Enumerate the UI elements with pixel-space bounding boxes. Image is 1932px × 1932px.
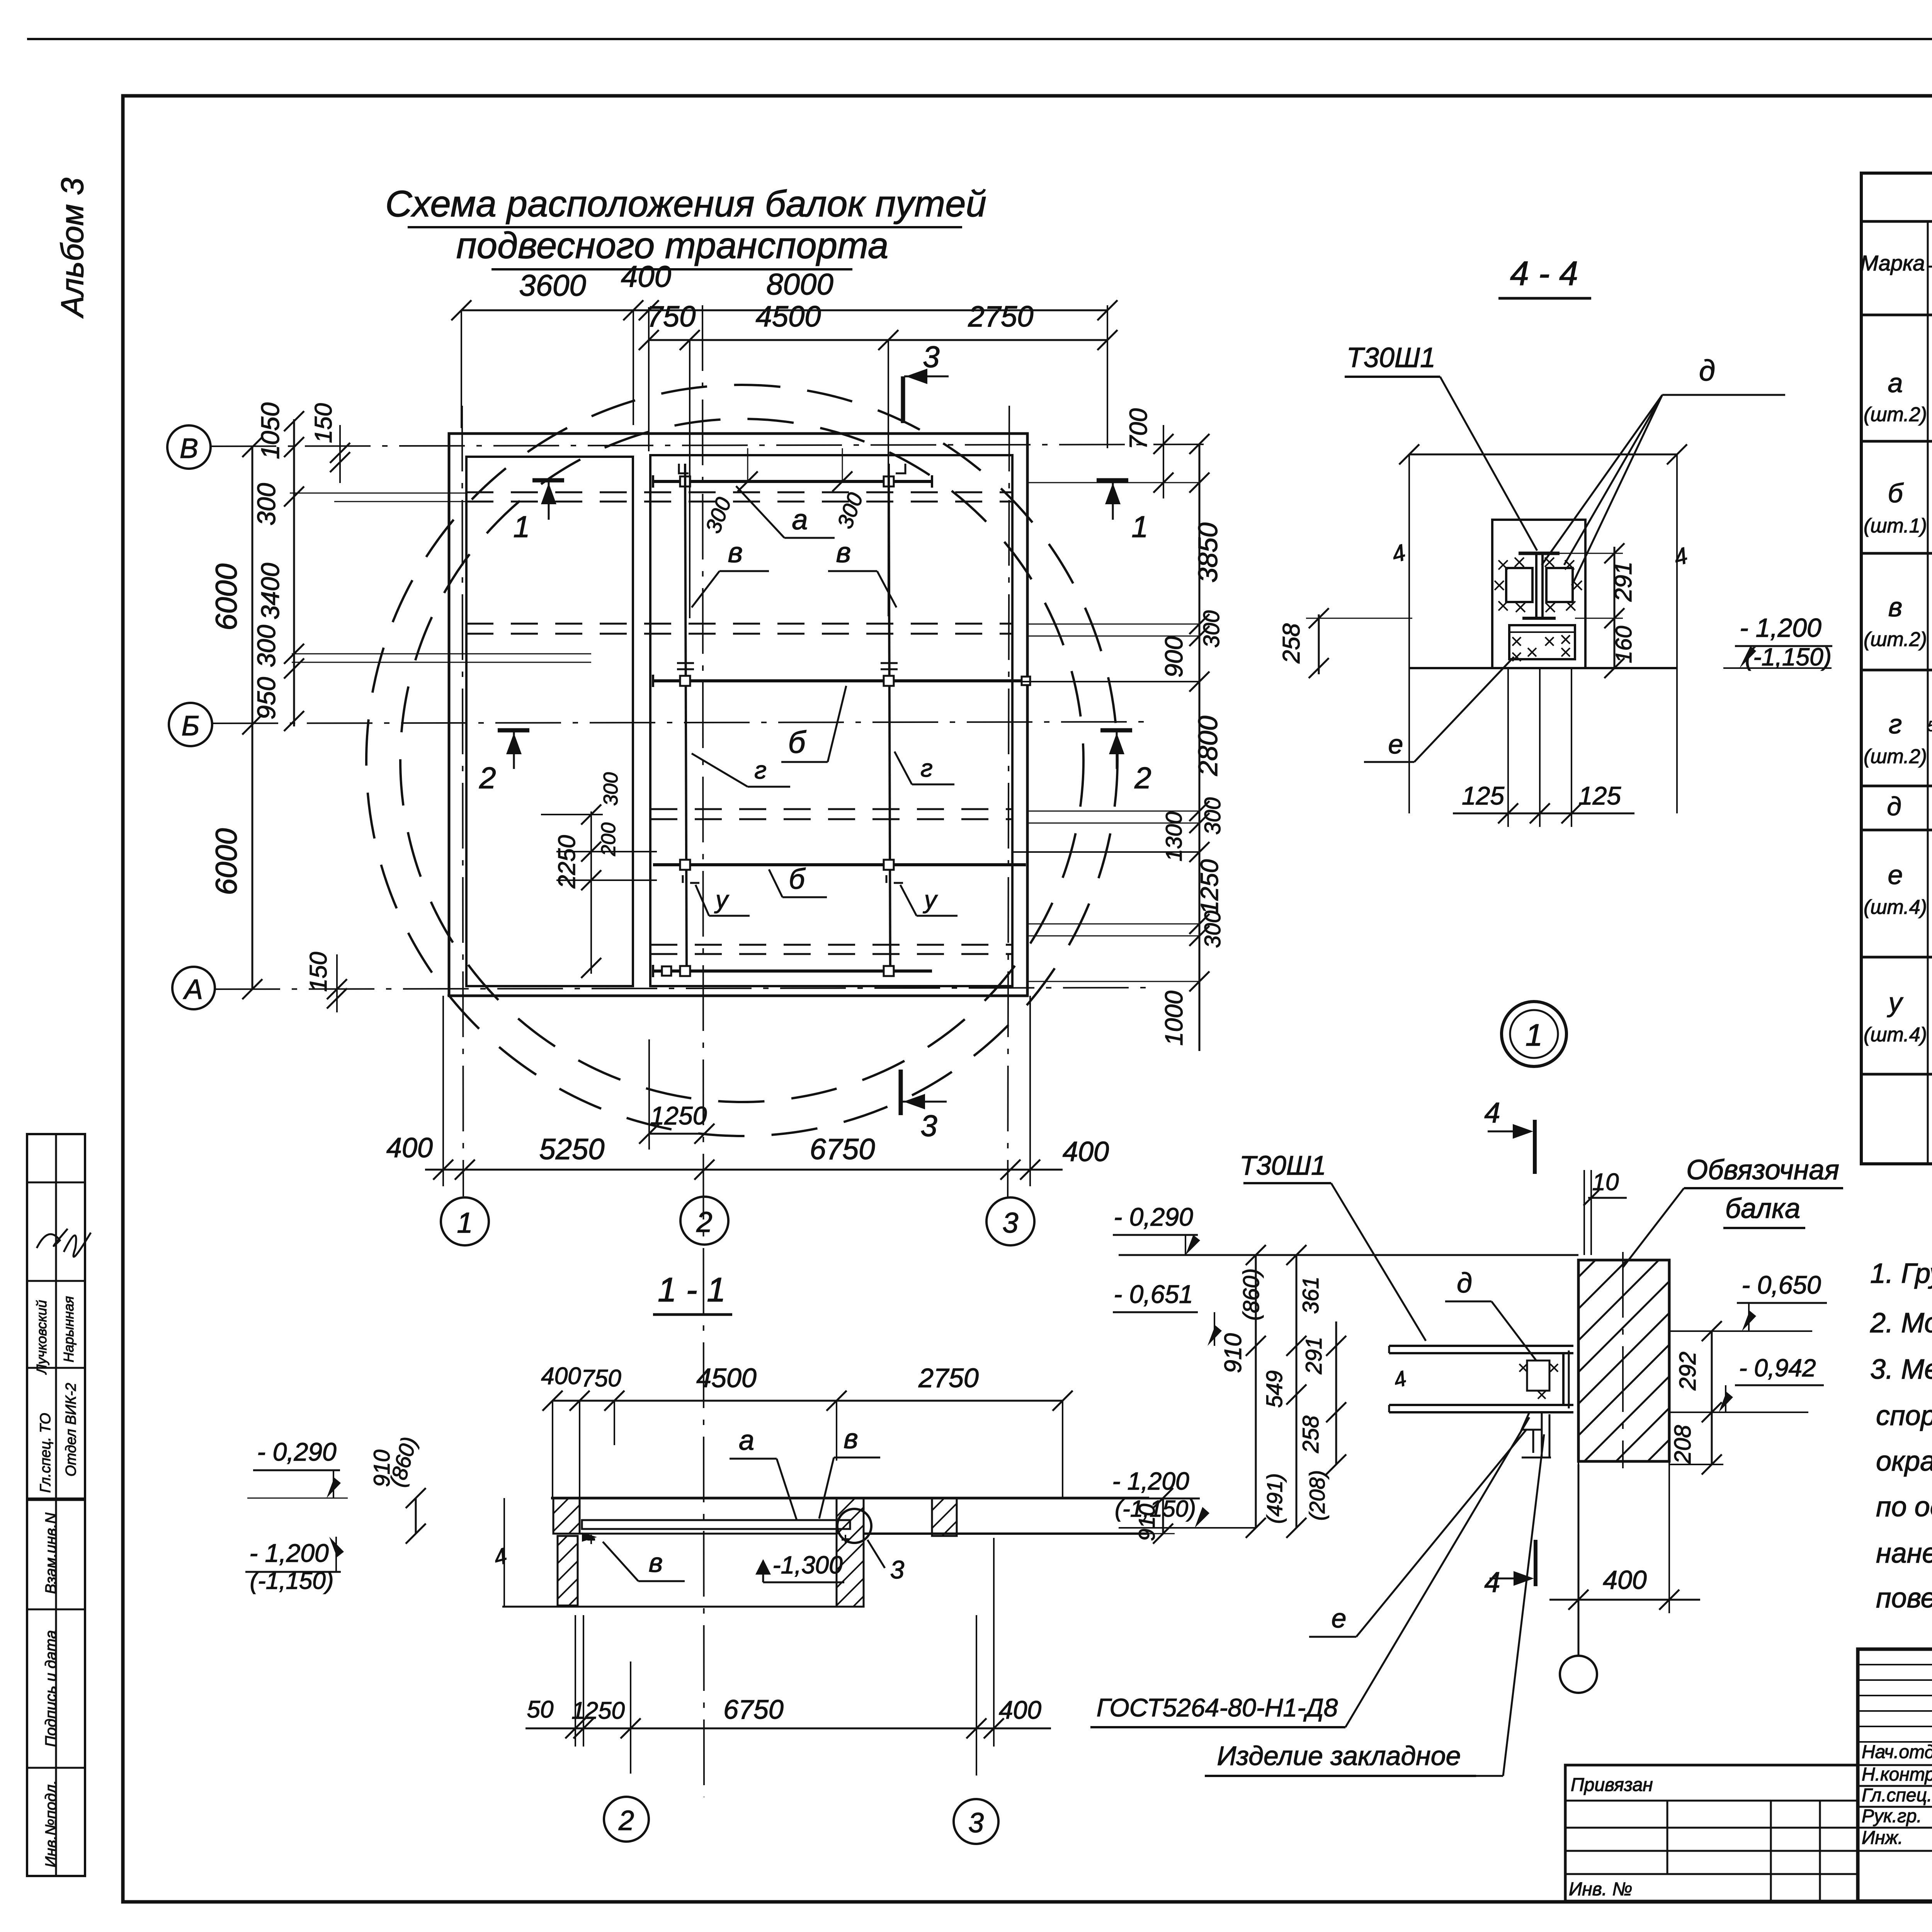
svg-text:- 1,200: - 1,200 <box>1740 613 1821 643</box>
label г right with leader <box>895 752 954 784</box>
axis line Б <box>213 722 1148 723</box>
table rows group б <box>1864 444 1932 549</box>
svg-text:Отдел ВИК-2: Отдел ВИК-2 <box>63 1383 79 1476</box>
table rows group г <box>1864 666 1932 768</box>
axis circle В <box>167 425 211 469</box>
section 1-1 axis circle 3 <box>954 1799 998 1844</box>
section 1-1 title <box>653 1270 732 1315</box>
section 1-1 label 3 with leader <box>867 1540 905 1584</box>
title block names <box>1862 1710 1932 1848</box>
svg-text:6000: 6000 <box>209 563 243 631</box>
section 4-4 label д with leaders <box>1542 354 1785 585</box>
element list table: data area column lines <box>1928 315 1932 1164</box>
svg-text:- 0,650: - 0,650 <box>1742 1270 1821 1299</box>
svg-text:2800: 2800 <box>1193 716 1223 776</box>
section 1-1 left pier hatched <box>480 1498 709 1605</box>
detail: level -0.650 right <box>1669 1270 1827 1331</box>
beam b lower (runway beam row 3) <box>653 860 1026 883</box>
svg-text:549: 549 <box>1262 1371 1287 1408</box>
crane rail dashed band 2 <box>466 624 1012 634</box>
svg-text:(шт.2): (шт.2) <box>1864 628 1927 651</box>
svg-text:Лучковский: Лучковский <box>34 1300 49 1374</box>
beam g left (vertical) <box>685 464 687 975</box>
beam g right (vertical) <box>889 464 890 975</box>
detail: small circle bottom <box>1560 1464 1597 1693</box>
svg-text:е: е <box>1888 860 1903 890</box>
svg-text:Подпись и дата: Подпись и дата <box>43 1630 60 1747</box>
svg-text:125: 125 <box>1462 781 1504 810</box>
detail: left dims (860) 361 910 549 291 258 (491) (208) <box>1220 1245 1346 1538</box>
section 1-1 axis circle 2 <box>604 1797 649 1842</box>
section 1-1 label а with leader <box>730 1425 797 1520</box>
svg-text:Инж.: Инж. <box>1862 1828 1903 1848</box>
svg-text:нанесенному на очищенную от: нанесенному на очищенную от ржавчины <box>1876 1538 1932 1569</box>
node mark circle 1 <box>1502 1002 1566 1066</box>
drawing title line 2 <box>456 225 889 269</box>
svg-text:(шт.4): (шт.4) <box>1864 896 1927 918</box>
detail: level -0.651 <box>1113 1280 1222 1346</box>
svg-text:г: г <box>1889 709 1902 739</box>
svg-text:1: 1 <box>457 1207 473 1239</box>
section 1-1 runway beam (longitudinal) <box>582 1520 850 1544</box>
detail: level -0.290 <box>1113 1202 1200 1255</box>
section 4-4 dim 291 160 <box>1560 543 1637 678</box>
svg-text:4: 4 <box>1484 1097 1500 1129</box>
section 4-4 label Т30Ш1 <box>1345 342 1537 551</box>
svg-text:2750: 2750 <box>918 1363 979 1393</box>
section 4-4 I-beam <box>1519 553 1560 618</box>
section 4-4 label е with leader <box>1364 657 1514 762</box>
svg-text:400: 400 <box>386 1133 433 1163</box>
label ГОСТ5264-80-Н1-Д8 with leader <box>1090 1417 1529 1727</box>
svg-text:у: у <box>714 886 730 913</box>
beam a (top runway beam) <box>653 448 932 536</box>
section 4-4 side plates with weld marks <box>1495 558 1582 612</box>
section 1-1 right outer pier <box>889 1498 1015 1536</box>
table row group д <box>1887 792 1932 823</box>
svg-text:-1,300: -1,300 <box>772 1551 843 1579</box>
svg-text:910: 910 <box>1220 1333 1247 1373</box>
svg-text:300: 300 <box>832 490 867 532</box>
svg-text:в: в <box>836 536 851 568</box>
detail: label Т30Ш1 <box>1240 1150 1426 1341</box>
svg-text:500: 500 <box>1927 718 1932 735</box>
detail: section mark 4 upper <box>1484 1097 1535 1174</box>
svg-text:(208): (208) <box>1305 1470 1329 1521</box>
section 1-1 level -1.200 (-1.150) left <box>245 1537 344 1594</box>
detail: section mark 4 lower <box>1484 1540 1536 1598</box>
label б middle with leader <box>781 686 846 762</box>
svg-text:1: 1 <box>513 510 530 544</box>
section 4-4 column outline <box>1409 520 1677 668</box>
svg-text:4: 4 <box>1484 1566 1500 1598</box>
plan bottom dimension: 400 5250 1250 6750 400 <box>386 996 1109 1186</box>
detail: label Обвязочная балка <box>1623 1155 1843 1267</box>
svg-text:750: 750 <box>647 300 696 333</box>
svg-text:258: 258 <box>1278 623 1305 664</box>
detail: bottom dim 400 <box>1549 1461 1700 1613</box>
svg-text:6750: 6750 <box>810 1133 875 1166</box>
svg-text:Нарынная: Нарынная <box>61 1296 77 1362</box>
svg-text:а: а <box>1888 368 1903 398</box>
svg-text:В: В <box>180 433 198 464</box>
svg-text:1: 1 <box>1131 510 1148 544</box>
section 1-1 tick 4 <box>491 1498 510 1607</box>
svg-text:балка: балка <box>1725 1193 1800 1224</box>
svg-text:3. Металлоконструкции путей: 3. Металлоконструкции путей подвесного т… <box>1870 1354 1932 1385</box>
svg-text:5250: 5250 <box>539 1133 604 1166</box>
svg-text:окрасить эмалью ПФ-115 ГОСТ64: окрасить эмалью ПФ-115 ГОСТ6465-76 за тр… <box>1876 1446 1932 1477</box>
svg-text:3: 3 <box>1002 1207 1018 1239</box>
svg-text:400: 400 <box>621 259 671 293</box>
svg-text:300: 300 <box>600 772 622 806</box>
plan dim cluster 2250 200 300 <box>541 772 657 978</box>
plan: right room inner walls <box>650 455 1012 986</box>
svg-text:(шт.1): (шт.1) <box>1864 515 1927 537</box>
album label: Альбом 3 <box>55 178 90 319</box>
svg-text:(860): (860) <box>1239 1268 1264 1320</box>
svg-text:361: 361 <box>1298 1277 1323 1314</box>
svg-text:Т30Ш1: Т30Ш1 <box>1240 1150 1326 1180</box>
svg-text:б: б <box>1888 478 1904 508</box>
svg-text:4: 4 <box>1391 1366 1409 1393</box>
svg-text:в: в <box>728 536 743 568</box>
svg-text:2: 2 <box>1134 761 1151 795</box>
svg-text:Изделие закладное: Изделие закладное <box>1217 1741 1461 1771</box>
label в right with leader <box>828 536 896 607</box>
svg-text:А: А <box>183 974 203 1005</box>
svg-text:- 1,200: - 1,200 <box>1112 1467 1189 1495</box>
section 4-4 embedded plate <box>1509 625 1575 661</box>
svg-text:(-1,150): (-1,150) <box>1745 643 1832 671</box>
svg-text:700: 700 <box>1124 408 1152 449</box>
svg-text:4 - 4: 4 - 4 <box>1510 254 1578 293</box>
svg-text:Гл.спец.: Гл.спец. <box>1862 1785 1932 1806</box>
svg-text:400: 400 <box>541 1363 581 1389</box>
svg-text:1: 1 <box>1526 1018 1543 1052</box>
section 1-1 level -0.290 left <box>247 1437 348 1498</box>
table rows group у <box>1864 959 1932 1055</box>
svg-text:(-1,150): (-1,150) <box>250 1568 333 1594</box>
svg-text:400: 400 <box>999 1696 1041 1724</box>
svg-text:а: а <box>792 503 808 536</box>
element list table: outer frame and title <box>1861 173 1932 1164</box>
svg-text:- 1,200: - 1,200 <box>249 1539 329 1567</box>
svg-text:Взам.инв.N: Взам.инв.N <box>43 1513 60 1594</box>
svg-text:200: 200 <box>597 823 620 857</box>
svg-text:д: д <box>1699 354 1715 387</box>
section mark 1 right <box>1097 480 1148 544</box>
svg-text:д: д <box>1887 792 1901 821</box>
svg-text:3: 3 <box>920 1109 937 1143</box>
axis line А <box>214 988 1148 989</box>
section 1-1 slab/beam bottom <box>580 1533 1149 1535</box>
svg-text:2: 2 <box>479 761 496 795</box>
plan: tank dashed circles <box>366 385 1117 1136</box>
section 4-4 level mark -1.200 (-1.150) <box>1723 613 1832 671</box>
svg-text:1300: 1300 <box>1162 811 1187 861</box>
svg-text:291: 291 <box>1301 1337 1327 1375</box>
svg-text:50: 50 <box>527 1696 554 1723</box>
svg-text:Схема расположения балок пу: Схема расположения балок путей <box>385 183 986 224</box>
axis circle 1 <box>441 1197 489 1245</box>
svg-text:ГОСТ5264-80-Н1-Д8: ГОСТ5264-80-Н1-Д8 <box>1097 1693 1338 1722</box>
plan: building outer walls <box>449 434 1027 996</box>
svg-text:1250: 1250 <box>650 1101 707 1130</box>
svg-text:208: 208 <box>1670 1425 1696 1464</box>
svg-text:у: у <box>1887 987 1904 1017</box>
svg-text:д: д <box>1457 1268 1472 1299</box>
section 4-4 dim 258 <box>1278 608 1412 678</box>
svg-text:2750: 2750 <box>968 300 1033 333</box>
svg-text:4: 4 <box>1389 539 1408 568</box>
svg-text:4: 4 <box>1671 543 1690 571</box>
svg-text:6750: 6750 <box>723 1694 784 1725</box>
svg-text:400: 400 <box>1603 1565 1647 1595</box>
svg-text:Т30Ш1: Т30Ш1 <box>1347 342 1435 373</box>
svg-text:4: 4 <box>491 1543 510 1571</box>
beam row 4 (bottom) <box>653 965 932 977</box>
svg-text:8000: 8000 <box>766 267 833 301</box>
svg-text:подвесного транспорта: подвесного транспорта <box>456 225 889 266</box>
svg-text:4500: 4500 <box>696 1363 757 1393</box>
svg-text:е: е <box>1388 729 1403 759</box>
axis line В <box>211 444 1204 446</box>
detail: end plate with welds <box>1519 1350 1569 1458</box>
svg-text:3850: 3850 <box>1193 522 1223 583</box>
svg-text:3: 3 <box>923 340 939 374</box>
section 1-1 level -1.300 <box>755 1551 844 1582</box>
top dimension tier 1: 3600 400 8000 <box>451 259 1117 448</box>
axis circle А <box>172 967 215 1009</box>
svg-text:Инв. №: Инв. № <box>1569 1879 1632 1900</box>
left extension lines <box>290 493 591 662</box>
svg-text:1050: 1050 <box>256 402 284 459</box>
label г left with leader <box>692 753 790 787</box>
section 1-1 dim 910 right <box>1134 1488 1175 1544</box>
axis line 1 <box>462 406 463 1196</box>
section 4-4 bottom dims 125 125 <box>1453 668 1634 827</box>
axis circle 2 <box>680 1197 728 1245</box>
label в left with leader <box>692 536 769 607</box>
svg-text:Марка: Марка <box>1860 251 1925 275</box>
svg-text:150: 150 <box>305 952 332 992</box>
label у left with leader <box>696 885 750 916</box>
label б lower with leader <box>769 863 827 897</box>
svg-text:291: 291 <box>1610 561 1637 602</box>
section 1-1 top dims 400 750 4500 2750 <box>541 1363 1073 1498</box>
detail: top level line <box>1119 1254 1578 1256</box>
svg-text:3600: 3600 <box>519 268 586 302</box>
svg-text:- 0,290: - 0,290 <box>1114 1202 1193 1231</box>
detail: dim 208 <box>1669 1412 1723 1475</box>
detail: concrete beam hatched <box>1362 1252 1932 1468</box>
svg-text:160: 160 <box>1611 626 1636 663</box>
svg-text:300: 300 <box>1200 911 1225 948</box>
svg-text:Инв.№подл.: Инв.№подл. <box>43 1780 60 1867</box>
svg-text:2. Монтажные болты М16.: 2. Монтажные болты М16. <box>1870 1308 1932 1338</box>
pривязан sub-table <box>1565 1765 1858 1901</box>
svg-text:по одному слою грунта ГФ: по одному слою грунта ГФ-0119 ГОСТ23343-… <box>1876 1492 1932 1522</box>
svg-text:1000: 1000 <box>1160 990 1188 1046</box>
detail: level -0.942 <box>1669 1354 1824 1412</box>
svg-text:3400: 3400 <box>256 563 284 619</box>
left dimension tier: 6000 6000 <box>209 437 262 999</box>
svg-text:300: 300 <box>252 483 281 526</box>
svg-text:- 0,651: - 0,651 <box>1114 1280 1193 1308</box>
svg-text:у: у <box>923 886 938 913</box>
section 4-4 title <box>1498 254 1591 298</box>
beam b (middle runway beam) <box>653 663 1030 687</box>
section 1-1 label в lower with leader <box>603 1542 685 1581</box>
left small dim 150 top <box>310 403 350 483</box>
svg-text:300: 300 <box>1200 798 1225 835</box>
label у right with leader <box>900 885 957 916</box>
section mark 1 left <box>513 480 564 544</box>
detail: runway I-beam side view <box>1389 1346 1573 1412</box>
svg-text:292: 292 <box>1675 1352 1701 1391</box>
svg-text:- 0,942: - 0,942 <box>1739 1354 1816 1382</box>
svg-text:Обвязочная: Обвязочная <box>1686 1155 1839 1185</box>
crane rail dashed band 4 <box>650 945 1012 954</box>
section 1-1 right pier hatched with detail circle <box>711 1498 1068 1607</box>
svg-text:1250: 1250 <box>1196 859 1223 914</box>
svg-text:спорта, за исключением ездов: спорта, за исключением ездовых поверхнос… <box>1876 1400 1932 1431</box>
section 1-1 bottom dims 50 1250 6750 400 <box>526 1538 1051 1776</box>
crane rail dashed band 3 <box>650 809 1012 819</box>
detail: level -1.200 (-1.150) <box>1109 1467 1256 1528</box>
svg-text:Б: Б <box>182 711 200 742</box>
section 1-1 slab top line <box>551 1497 1149 1500</box>
section mark 3 top <box>903 340 949 423</box>
plan: left room inner walls <box>466 457 633 986</box>
svg-text:2: 2 <box>618 1805 634 1836</box>
axis line 2 <box>702 305 704 1797</box>
section mark 2 left <box>479 730 529 795</box>
svg-text:Нач.отд.: Нач.отд. <box>1862 1742 1932 1762</box>
svg-text:258: 258 <box>1298 1416 1323 1454</box>
svg-text:в: в <box>649 1548 663 1578</box>
sheet top edge line <box>27 38 1932 40</box>
top dimension tier 2: 750 4500 2750 <box>639 300 1117 618</box>
svg-text:300: 300 <box>252 625 281 667</box>
svg-text:б: б <box>789 863 806 895</box>
section 1-1 label в top right with leader <box>819 1423 880 1519</box>
svg-text:Рук.гр.: Рук.гр. <box>1862 1806 1922 1827</box>
right dimension tier: 700 3850 300 900 2800 300 1300 1250 300 1000 <box>1012 408 1225 1051</box>
element list table: header cells <box>1860 221 1932 315</box>
svg-text:(860): (860) <box>385 1434 422 1490</box>
svg-text:910: 910 <box>1134 1504 1160 1541</box>
svg-text:Альбом 3: Альбом 3 <box>55 178 90 319</box>
svg-text:2: 2 <box>696 1206 712 1238</box>
svg-text:125: 125 <box>1578 781 1621 810</box>
svg-text:в: в <box>844 1423 858 1454</box>
detail: label д with leader <box>1445 1268 1536 1360</box>
label Изделие закладное with leader <box>1205 1434 1544 1776</box>
svg-text:900: 900 <box>1160 636 1188 677</box>
svg-text:400: 400 <box>1063 1136 1109 1167</box>
svg-text:г: г <box>754 756 767 784</box>
svg-text:4500: 4500 <box>755 300 821 333</box>
detail: label е with leader <box>1309 1430 1526 1637</box>
crane rail dashed band 1 <box>466 492 1012 502</box>
svg-text:(шт.2): (шт.2) <box>1864 745 1927 768</box>
left dimension tier 2: 1050 300 3400 300 950 <box>252 402 304 731</box>
notes text block <box>1870 1258 1932 1614</box>
svg-text:б: б <box>788 725 807 759</box>
axis circle 3 <box>986 1197 1034 1245</box>
svg-text:3: 3 <box>968 1808 984 1838</box>
svg-text:1. Грузоподъемность кранбалк: 1. Грузоподъемность кранбалки 3,2 т. <box>1870 1258 1932 1289</box>
table rows group а <box>1864 324 1932 434</box>
svg-text:1250: 1250 <box>571 1697 625 1724</box>
label a with leader <box>736 486 835 538</box>
svg-text:300: 300 <box>1199 611 1224 648</box>
svg-text:- 0,290: - 0,290 <box>257 1437 337 1466</box>
svg-text:(491): (491) <box>1262 1473 1287 1524</box>
axis line 3 <box>1008 406 1009 1198</box>
svg-text:950: 950 <box>252 677 281 719</box>
svg-text:750: 750 <box>581 1365 621 1392</box>
section 4-4 top dimension line <box>1389 444 1690 813</box>
svg-text:3: 3 <box>890 1555 905 1584</box>
svg-text:Гл.спец. ТО: Гл.спец. ТО <box>37 1413 54 1493</box>
element list table: row lines <box>1861 315 1932 1139</box>
svg-text:поверхность .: поверхность . <box>1876 1583 1932 1614</box>
svg-text:Привязан: Привязан <box>1571 1775 1653 1795</box>
section 1-1 dim 910 (860) rotated <box>369 1434 426 1544</box>
section mark 2 right <box>1100 730 1151 795</box>
svg-text:в: в <box>1888 592 1903 622</box>
svg-text:(шт.4): (шт.4) <box>1864 1024 1927 1046</box>
svg-text:150: 150 <box>310 403 337 443</box>
section mark 3 bottom <box>901 1070 947 1143</box>
svg-text:е: е <box>1332 1603 1347 1633</box>
drawing title line 1 <box>385 183 986 227</box>
table rows group в <box>1864 554 1932 660</box>
svg-text:а: а <box>739 1425 754 1456</box>
left small dim 150 bottom <box>305 952 347 1012</box>
title block main frame <box>1858 1649 1932 1901</box>
svg-text:2250: 2250 <box>554 835 580 889</box>
svg-text:300: 300 <box>701 494 736 536</box>
section 1-1 bottom line <box>502 1606 861 1608</box>
detail: dim 10 <box>1583 1169 1627 1255</box>
axis circle Б <box>169 703 212 746</box>
svg-text:г: г <box>920 754 933 782</box>
svg-text:Н.контр: Н.контр <box>1862 1764 1932 1785</box>
table rows group е <box>1864 833 1932 928</box>
svg-text:1 - 1: 1 - 1 <box>658 1270 726 1309</box>
detail: dim 292 <box>1675 1321 1722 1422</box>
left margin signature table <box>27 1134 91 1876</box>
svg-text:(шт.2): (шт.2) <box>1864 403 1927 426</box>
svg-text:6000: 6000 <box>209 828 243 895</box>
